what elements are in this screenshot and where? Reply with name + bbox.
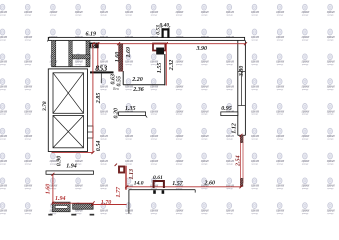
- svg-text:1.77: 1.77: [116, 186, 122, 198]
- svg-text:2.20: 2.20: [131, 77, 143, 83]
- svg-text:1.94: 1.94: [66, 163, 77, 169]
- svg-text:1.69: 1.69: [126, 47, 132, 58]
- svg-text:3.78: 3.78: [42, 101, 48, 112]
- svg-text:6.19: 6.19: [86, 32, 97, 38]
- svg-text:0.55: 0.55: [116, 76, 122, 87]
- svg-text:853: 853: [95, 64, 107, 73]
- svg-text:1.60: 1.60: [115, 52, 121, 63]
- svg-text:0.20: 0.20: [114, 108, 120, 119]
- svg-text:1.35: 1.35: [125, 106, 136, 112]
- svg-text:3.90: 3.90: [196, 46, 208, 52]
- svg-text:1.13: 1.13: [129, 169, 135, 180]
- svg-text:2.36: 2.36: [132, 87, 144, 93]
- svg-text:1.70: 1.70: [101, 200, 112, 206]
- svg-text:0.90: 0.90: [56, 156, 62, 167]
- svg-text:1.60: 1.60: [45, 184, 51, 195]
- svg-text:1.55: 1.55: [157, 63, 163, 74]
- svg-text:0.54: 0.54: [96, 141, 102, 152]
- svg-text:Вен: Вен: [112, 87, 119, 91]
- svg-text:1.12: 1.12: [232, 123, 238, 134]
- svg-text:1.94: 1.94: [55, 196, 66, 202]
- svg-text:0.61: 0.61: [153, 175, 163, 181]
- svg-text:2.32: 2.32: [169, 60, 175, 72]
- svg-text:2.60: 2.60: [204, 181, 216, 187]
- svg-text:2.54: 2.54: [235, 156, 241, 168]
- svg-text:2.85: 2.85: [96, 93, 102, 105]
- svg-text:0.53: 0.53: [155, 25, 161, 35]
- svg-text:1.57: 1.57: [172, 181, 184, 187]
- svg-text:0.95: 0.95: [221, 106, 232, 112]
- svg-text:14.0: 14.0: [134, 180, 144, 186]
- svg-text:3.80: 3.80: [239, 66, 245, 78]
- svg-text:15: 15: [90, 44, 95, 49]
